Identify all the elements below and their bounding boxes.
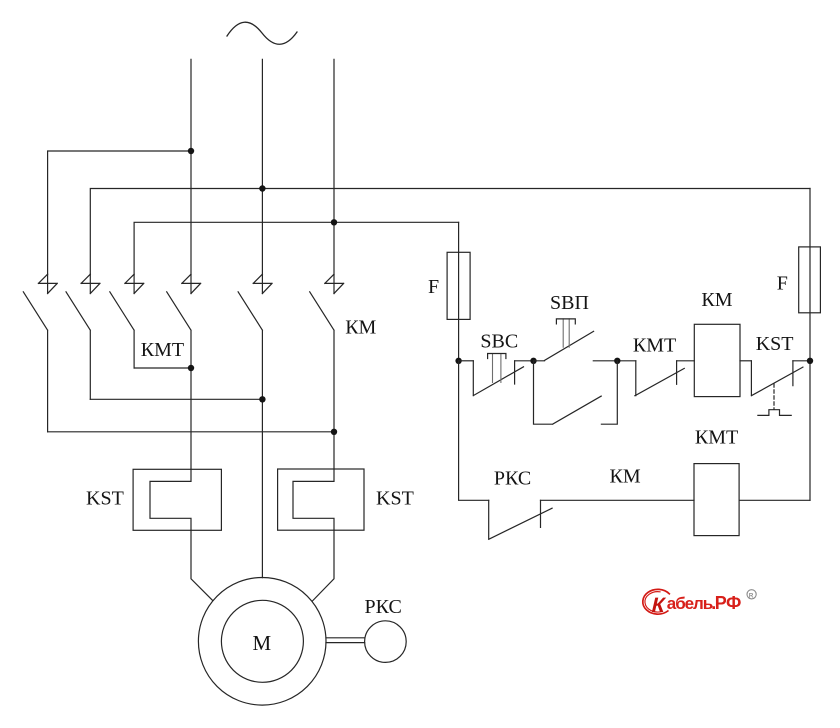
svg-text:РФ: РФ xyxy=(715,593,741,613)
wire left rail down xyxy=(459,361,489,501)
breaker contact QF6 (KM pole 3) xyxy=(310,274,344,469)
node B junction xyxy=(259,185,265,191)
contact KST (NC with manual reset) xyxy=(751,361,810,416)
wire connector y=368 xyxy=(134,367,191,369)
node C junction xyxy=(331,219,337,225)
wire rail SBC to node xyxy=(515,360,534,362)
breaker contact QF2 (KMT pole 2) xyxy=(66,274,100,399)
wire connector y=431.8 xyxy=(48,431,334,433)
wire rail to SBC xyxy=(459,360,474,362)
node junction right rail xyxy=(807,358,813,364)
wire coil KMT to right rail xyxy=(739,499,810,501)
fuse F right xyxy=(799,189,821,501)
svg-text:KST: KST xyxy=(376,488,414,510)
wire to motor left xyxy=(191,530,213,600)
svg-text:М: М xyxy=(253,631,272,655)
node control rail left junction xyxy=(455,358,461,364)
speed sensor RKS shaft xyxy=(326,638,365,643)
svg-text:КМТ: КМТ xyxy=(633,335,676,357)
contact RKS (NC speed relay) xyxy=(489,500,694,539)
svg-text:РКС: РКС xyxy=(494,468,531,490)
wire branch B (y=188.5) xyxy=(90,189,810,275)
svg-text:КМ: КМ xyxy=(345,317,376,339)
node junction SBP xyxy=(530,358,536,364)
svg-text:SBC: SBC xyxy=(480,331,518,353)
svg-text:F: F xyxy=(428,276,439,298)
node A junction xyxy=(188,148,194,154)
svg-text:KST: KST xyxy=(756,333,794,355)
coil KMT xyxy=(694,464,739,536)
contact KM auxiliary (self-hold NO) xyxy=(534,361,618,424)
svg-text:КМТ: КМТ xyxy=(141,339,184,361)
node junction y=399.3 xyxy=(259,396,265,402)
logo Kabel.RF xyxy=(643,589,756,616)
breaker contact QF3 (KMT pole 3) xyxy=(110,274,144,368)
svg-text:КМ: КМ xyxy=(701,289,732,311)
pushbutton SBP (NO start) xyxy=(534,319,636,361)
wire branch A (y=151) xyxy=(48,151,191,274)
thermal element KST right xyxy=(278,469,364,530)
coil KM xyxy=(694,324,740,396)
phase wire C xyxy=(333,59,335,293)
thermal element KST left xyxy=(133,469,221,530)
wire to motor right xyxy=(312,530,334,601)
pushbutton SBC (NC stop) xyxy=(473,354,523,396)
breaker contact QF1 (KMT pole 1) xyxy=(23,274,57,432)
svg-text:F: F xyxy=(777,273,788,295)
speed sensor RKS circle xyxy=(365,621,407,663)
node junction y=431.8 xyxy=(331,429,337,435)
motor M xyxy=(198,578,326,706)
svg-text:КМ: КМ xyxy=(610,466,641,488)
breaker contact QF5 (KM pole 2) xyxy=(238,274,272,577)
wire branch C (y=222.3) xyxy=(134,222,459,274)
svg-text:КМТ: КМТ xyxy=(695,427,738,449)
svg-text:абель: абель xyxy=(667,594,713,613)
AC source tilde xyxy=(227,22,297,44)
fuse F left xyxy=(447,222,470,360)
svg-text:SBП: SBП xyxy=(550,292,589,314)
svg-text:R: R xyxy=(749,592,754,599)
svg-text:РКС: РКС xyxy=(365,596,402,618)
node junction after SBP xyxy=(614,358,620,364)
svg-text:KST: KST xyxy=(86,488,124,510)
breaker contact QF4 (KM pole 1) xyxy=(167,274,201,469)
node junction y=368 xyxy=(188,365,194,371)
phase wire A xyxy=(190,59,192,293)
contact KMT (NC interlock) xyxy=(635,361,694,396)
wire coil KM to KST xyxy=(740,360,751,362)
phase wire B xyxy=(261,59,263,293)
wire connector y=399.3 xyxy=(90,398,262,400)
